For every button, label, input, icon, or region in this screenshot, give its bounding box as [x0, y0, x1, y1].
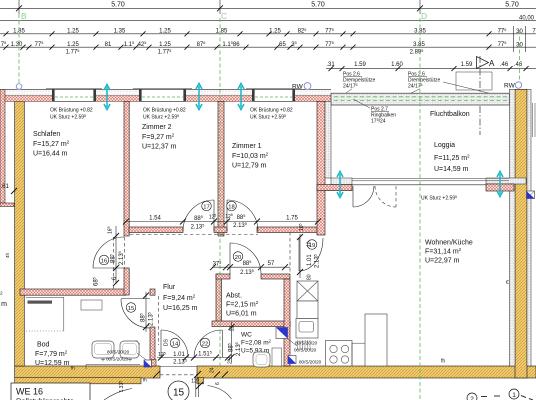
- svg-text:RW: RW: [292, 84, 304, 91]
- svg-text:Zimmer 1: Zimmer 1: [232, 143, 262, 150]
- door 18 number circle: [227, 201, 237, 211]
- svg-text:Flur: Flur: [163, 284, 176, 291]
- WC basin: [272, 348, 282, 366]
- wall WC east: [284, 279, 290, 366]
- svg-text:2: 2: [470, 396, 474, 400]
- door 20 arc: [230, 243, 261, 274]
- entry door leaf double line: [195, 377, 197, 397]
- door 16 arc: [93, 237, 124, 268]
- loggia door dashed arc: [375, 186, 396, 207]
- bottom right circle 2: [467, 393, 477, 400]
- door 17 leaf: [213, 200, 215, 231]
- svg-text:24: 24: [210, 367, 216, 373]
- shower niche dashed: [158, 296, 160, 345]
- door 19 leaf: [298, 238, 300, 271]
- door 14 arc: [161, 330, 188, 357]
- loggia SE block pink: [486, 184, 514, 191]
- door 15 dim line: [145, 292, 147, 332]
- svg-text:DS: DS: [164, 338, 170, 346]
- svg-text:81: 81: [105, 42, 112, 48]
- svg-text:C: C: [221, 11, 227, 21]
- Pos 2.6 label left: [343, 72, 375, 90]
- door 16 number circle: [99, 255, 109, 265]
- kitchen unit 2: [297, 301, 318, 319]
- svg-text:1.01: 1.01: [307, 254, 313, 266]
- window Schlafen: [46, 88, 102, 101]
- svg-text:00/S/20/20: 00/S/20/20: [294, 348, 317, 353]
- left wall end cap: [0, 203, 14, 207]
- door 16 dim line: [115, 226, 117, 284]
- svg-text:1.75: 1.75: [286, 215, 298, 221]
- svg-text:U=12,59 m: U=12,59 m: [35, 360, 70, 367]
- svg-text:1.60: 1.60: [391, 62, 403, 68]
- WC toilet: [253, 352, 270, 367]
- svg-text:7: 7: [532, 29, 536, 35]
- left outer pink sliver wall: [0, 89, 5, 203]
- entry door arc left outside: [104, 389, 132, 400]
- svg-text:1.59: 1.59: [461, 62, 473, 68]
- svg-text:1.85: 1.85: [216, 29, 228, 35]
- grid stub B: [18, 0, 20, 14]
- door 19 dim line: [299, 234, 301, 278]
- stairwell window right: [532, 103, 534, 137]
- svg-text:17: 17: [203, 204, 209, 210]
- window arrow 3: [238, 84, 244, 110]
- wall Abst top right stub: [261, 274, 290, 279]
- flur dim line: [157, 357, 230, 359]
- svg-text:1: 1: [512, 392, 516, 399]
- dimension line row 3 right: [326, 68, 536, 70]
- WE 16 box: [11, 383, 90, 400]
- svg-text:U=12,79 m: U=12,79 m: [232, 163, 267, 170]
- grid dashed line B: [18, 14, 20, 83]
- svg-text:1.25: 1.25: [159, 29, 171, 35]
- entry door arc right outside: [208, 386, 232, 400]
- svg-text:20: 20: [235, 255, 241, 261]
- door 20 number circle: [233, 252, 243, 262]
- right exterior yellow wall: [515, 89, 527, 378]
- svg-text:1.54: 1.54: [149, 215, 161, 221]
- dimension line row top: [0, 7, 536, 9]
- window arrow 2: [196, 84, 202, 110]
- svg-text:1.35: 1.35: [114, 29, 126, 35]
- basin cross marks: [101, 358, 132, 362]
- shower wall stub top: [150, 289, 155, 295]
- svg-text:1.25: 1.25: [67, 42, 79, 48]
- vent symbol WC: [276, 328, 297, 347]
- door 16 leaf: [93, 267, 124, 269]
- svg-text:.46: .46: [500, 62, 509, 68]
- svg-text:UK Sturz +2.595: UK Sturz +2.595: [143, 114, 179, 121]
- svg-text:F=2,08 m2: F=2,08 m2: [241, 338, 272, 346]
- svg-text:1.25: 1.25: [159, 42, 171, 48]
- svg-text:14: 14: [172, 341, 179, 347]
- svg-text:F=11,25 m2: F=11,25 m2: [434, 154, 470, 163]
- room label Abst: [226, 293, 259, 318]
- svg-text:F=15,27 m2: F=15,27 m2: [33, 140, 70, 149]
- grid dashed line D: [419, 18, 421, 400]
- svg-text:UK Sturz +2.595: UK Sturz +2.595: [250, 114, 286, 121]
- loggia door solid leaf: [352, 186, 354, 207]
- svg-text:U=6,01 m: U=6,01 m: [226, 311, 257, 318]
- right wall insulation strip: [509, 89, 515, 366]
- svg-text:Abst.: Abst.: [226, 293, 242, 300]
- window Zimmer 1: [246, 88, 301, 101]
- svg-text:1.01: 1.01: [173, 352, 185, 358]
- svg-text:U=12,37 m: U=12,37 m: [142, 144, 177, 151]
- Pos 2.7 leader: [353, 99, 370, 108]
- svg-text:F=7,79 m2: F=7,79 m2: [35, 350, 68, 359]
- svg-text:B: B: [21, 11, 27, 21]
- svg-text:00/S/20/20: 00/S/20/20: [106, 357, 129, 362]
- door 17 number circle: [202, 201, 212, 211]
- wall Schlafen bottom: [20, 289, 126, 295]
- svg-text:40,00: 40,00: [519, 16, 535, 22]
- door 19 arc: [299, 238, 323, 271]
- svg-text:Loggia: Loggia: [434, 142, 455, 149]
- svg-text:.31: .31: [326, 62, 335, 68]
- Pos 2.6 leader right: [404, 89, 420, 97]
- wall rooms bottom segment 2: [214, 227, 227, 233]
- entry pink bit: [152, 360, 157, 367]
- svg-text:U= m: U= m: [0, 301, 7, 308]
- door 20 leaf: [229, 243, 231, 274]
- 30-column separators: [513, 26, 515, 52]
- svg-text:65: 65: [279, 42, 286, 48]
- Bod counter edge: [86, 365, 140, 370]
- entry threshold dashes: [160, 374, 197, 376]
- Pos 2.6 leader left: [341, 89, 352, 97]
- svg-text:WC: WC: [241, 332, 252, 339]
- OK Bruestung window 1: [50, 108, 93, 121]
- wall Abst west: [216, 274, 222, 326]
- svg-text:WE 16: WE 16: [16, 387, 43, 397]
- svg-text:175/24: 175/24: [371, 118, 386, 125]
- svg-text:22: 22: [202, 341, 208, 347]
- svg-text:.46: .46: [514, 62, 523, 68]
- grid stub C: [219, 0, 221, 14]
- kitchen tall unit with X: [297, 281, 318, 301]
- svg-text:RW: RW: [504, 83, 516, 90]
- door 19 number circle: [307, 240, 317, 250]
- room label Wohnen/Kueche: [425, 240, 473, 265]
- svg-text:1.30: 1.30: [11, 42, 23, 48]
- left exterior yellow wall: [15, 101, 25, 366]
- wall Abst bottom: [212, 321, 290, 327]
- kitchen peninsula: [365, 314, 387, 366]
- leader to vent: [137, 353, 149, 362]
- svg-text:10: 10: [307, 241, 313, 247]
- svg-text:5.70: 5.70: [111, 2, 125, 9]
- svg-text:OK Brüstung +0.82: OK Brüstung +0.82: [50, 108, 93, 114]
- entry vent symbol: [144, 360, 152, 367]
- svg-text:Rollstuhlgerechte: Rollstuhlgerechte: [16, 397, 74, 400]
- window arrow 1: [104, 85, 110, 110]
- svg-text:80/S/20/20: 80/S/20/20: [299, 360, 322, 365]
- loggia west insulation: [325, 101, 331, 178]
- grid stub D: [419, 0, 421, 14]
- door 16 dashed beams: [113, 237, 115, 289]
- door 15 number circle: [126, 303, 136, 313]
- door 15 arc: [121, 299, 150, 328]
- vent symbol loggia right: [527, 191, 535, 199]
- dashes between circles: [481, 396, 533, 400]
- svg-text:Wohnen/Küche: Wohnen/Küche: [425, 240, 473, 247]
- Bod closet dotted front: [26, 330, 64, 332]
- svg-text:U=22,97 m: U=22,97 m: [425, 258, 460, 265]
- svg-text:A: A: [489, 59, 495, 68]
- svg-text:D: D: [421, 11, 427, 21]
- OK Bruestung window 2: [143, 108, 186, 121]
- bottom exterior wall (yellow): [15, 366, 160, 378]
- loggia SW corner insulation: [331, 178, 352, 185]
- wall rooms bottom segment 3: [257, 227, 317, 233]
- room label Flur: [163, 284, 198, 312]
- grid ticks on top line: [16, 5, 423, 11]
- Bod closet side: [63, 297, 65, 331]
- Bod closet rail: [26, 296, 64, 298]
- svg-text:57: 57: [268, 261, 275, 267]
- svg-text:24/175: 24/175: [343, 83, 358, 90]
- svg-text:U=14,59 m: U=14,59 m: [434, 166, 469, 173]
- svg-text:fh: fh: [71, 366, 75, 371]
- svg-text:80/S/20/20: 80/S/20/20: [295, 341, 318, 346]
- svg-text:€: €: [506, 280, 509, 286]
- loggia glass front: [352, 177, 509, 179]
- loggia SW corner pink: [317, 185, 352, 191]
- door 15 leaf: [121, 298, 150, 300]
- wall Wohnen west (x317): [317, 101, 325, 235]
- door19 dashed: [289, 232, 291, 274]
- Bod closet door bar: [28, 301, 53, 304]
- svg-text:Fluchtbalkon: Fluchtbalkon: [430, 111, 470, 118]
- svg-text:18: 18: [228, 204, 234, 210]
- shower wall: [150, 327, 155, 366]
- svg-text:OK Brüstung +0.82: OK Brüstung +0.82: [250, 108, 293, 114]
- kitchen grate: [298, 340, 311, 350]
- svg-text:1.59: 1.59: [354, 62, 366, 68]
- room label Bod: [35, 342, 75, 371]
- WC dim line: [231, 322, 233, 362]
- room label Zimmer 1: [232, 143, 269, 170]
- entry ticks: [153, 371, 228, 389]
- wall rooms bottom segment 1: [129, 227, 183, 233]
- door 22 number circle: [200, 338, 210, 348]
- svg-text:12: 12: [230, 326, 236, 332]
- room label Loggia: [434, 142, 470, 173]
- loggia door solid arc: [353, 186, 374, 207]
- window Zimmer 2: [133, 88, 192, 101]
- RW right: [504, 82, 522, 90]
- door 14 leaf: [160, 330, 162, 357]
- svg-text:3.85: 3.85: [413, 42, 425, 48]
- wall x124 below door 16: [124, 268, 129, 295]
- loggia right arrow: [497, 172, 503, 197]
- door 18 leaf: [226, 200, 228, 231]
- svg-text:OK Brüstung +0.82: OK Brüstung +0.82: [143, 108, 186, 114]
- svg-text:80: 80: [307, 274, 313, 280]
- Bod basin 2: [120, 341, 139, 358]
- bottom right circle 1: [509, 389, 519, 399]
- svg-text:U=16,44 m: U=16,44 m: [33, 151, 68, 158]
- loggia door dashed leaf: [395, 186, 397, 207]
- section marker A: [477, 57, 489, 69]
- svg-text:1.25: 1.25: [269, 29, 281, 35]
- svg-text:F=2,15 m2: F=2,15 m2: [226, 300, 259, 309]
- svg-text:U=16,25 m: U=16,25 m: [163, 305, 198, 312]
- top wall insulation layer: [0, 90, 331, 95]
- long leader to right RW: [443, 82, 507, 98]
- svg-text:F=9,27 m2: F=9,27 m2: [142, 133, 175, 142]
- svg-text:F=9,24 m2: F=9,24 m2: [163, 294, 196, 303]
- Bod basin 1: [92, 341, 114, 358]
- door 14 number circle: [170, 338, 180, 348]
- vent symbol kitchen: [288, 356, 296, 364]
- dim row1 ticks: [4, 31, 492, 36]
- balcony parapet band: [331, 93, 509, 105]
- roof hatch box: [456, 72, 492, 90]
- grid dashed line right: [519, 30, 521, 81]
- svg-text:UK Sturz +2.595: UK Sturz +2.595: [50, 114, 86, 121]
- svg-text:fh: fh: [441, 359, 445, 365]
- kitchen counter step: [352, 343, 365, 366]
- door 22 leaf: [222, 330, 224, 357]
- section line A dash-dot: [479, 56, 481, 135]
- door 22 arc: [194, 330, 222, 358]
- svg-text:5.70: 5.70: [505, 2, 519, 9]
- abst dim line: [212, 266, 290, 268]
- dim row3 ticks: [329, 66, 529, 71]
- svg-text:F=31,14 m2: F=31,14 m2: [425, 247, 462, 256]
- svg-text:80/S/20/20: 80/S/20/20: [107, 350, 130, 355]
- svg-text:F=10,03 m2: F=10,03 m2: [232, 152, 269, 161]
- svg-text:15: 15: [128, 306, 134, 312]
- svg-text:1.25: 1.25: [67, 29, 79, 35]
- svg-text:15: 15: [173, 388, 185, 399]
- Bod washer box: [81, 300, 102, 310]
- kitchen sink unit: [296, 319, 318, 339]
- loggia door arrow: [337, 172, 343, 198]
- top wall masonry layer (pink): [0, 96, 331, 102]
- room label Schlafen: [33, 131, 70, 158]
- svg-text:UK Sturz +2.595: UK Sturz +2.595: [421, 195, 457, 202]
- grid line B end circle: [16, 84, 22, 90]
- svg-text:16: 16: [101, 258, 107, 264]
- bottom wall thick left part: [15, 378, 141, 384]
- dim row2 ticks: [4, 45, 492, 50]
- svg-text:4h: 4h: [5, 252, 10, 258]
- room label WC: [241, 332, 272, 355]
- svg-text:6: 6: [215, 382, 221, 385]
- wall Schlafen/Zimmer2 (x124) upper: [124, 101, 129, 236]
- top exterior wall base: [0, 89, 331, 101]
- room label Zimmer 2: [142, 124, 177, 151]
- rooms dim line y221: [126, 221, 318, 223]
- RW left: [292, 83, 311, 91]
- position circle 15 big: [168, 381, 189, 400]
- svg-text:Bod: Bod: [37, 342, 50, 349]
- kitchen hob: [326, 341, 353, 367]
- door 18 arc: [227, 200, 258, 231]
- Pos 2.7 label: [371, 107, 396, 125]
- door 17 arc: [183, 200, 214, 231]
- loggia SE block insulation: [486, 178, 526, 184]
- wall Zimmer2/Zimmer1: [218, 101, 224, 236]
- svg-text:.61: .61: [1, 184, 10, 190]
- doors 17+18 dashed beam: [130, 234, 258, 236]
- svg-text:fh: fh: [143, 378, 147, 383]
- svg-text:Schlafen: Schlafen: [33, 131, 60, 138]
- Pos 2.6 label right: [408, 72, 440, 90]
- svg-text:5.70: 5.70: [311, 2, 325, 9]
- wall Abst top left stub: [216, 274, 230, 279]
- grid dashed line C: [219, 18, 221, 366]
- svg-text:Zimmer 2: Zimmer 2: [142, 124, 172, 131]
- OK Bruestung window 3: [250, 108, 293, 121]
